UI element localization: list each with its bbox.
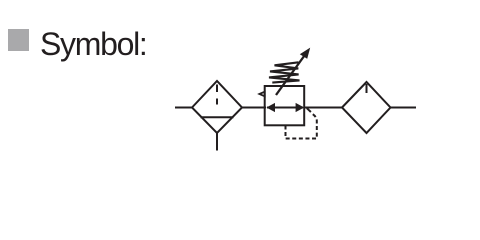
filter F body (diamond): [192, 81, 242, 133]
wire: outlet port line: [391, 107, 417, 109]
wire: regulator to lubricator: [304, 107, 342, 109]
regulator right arrowhead: [296, 103, 305, 112]
filter drain line: [216, 133, 218, 151]
regulator adjustment arrowhead: [300, 48, 310, 59]
wire: filter to regulator: [242, 107, 266, 109]
regulator left arrowhead: [266, 103, 275, 112]
filter sump chord line: [201, 116, 234, 118]
lubricator drip tube: [366, 84, 368, 93]
wire: inlet port line: [175, 107, 193, 109]
regulator pilot dashed feedback line: [286, 114, 317, 138]
filter element dashed line: [216, 85, 218, 105]
regulator R body (square): [265, 86, 305, 125]
regulator relief vent triangle: [259, 92, 264, 97]
label "Symbol:": [40, 28, 147, 60]
regulator flow-path shaft: [267, 107, 303, 109]
regulator spring: [269, 62, 300, 82]
regulator pilot dashed feedback line: branch dash at flow line: [307, 108, 311, 112]
gray bullet square: [8, 29, 29, 51]
regulator adjustment arrow shaft: [276, 56, 305, 96]
lubricator L body (diamond): [342, 82, 391, 133]
